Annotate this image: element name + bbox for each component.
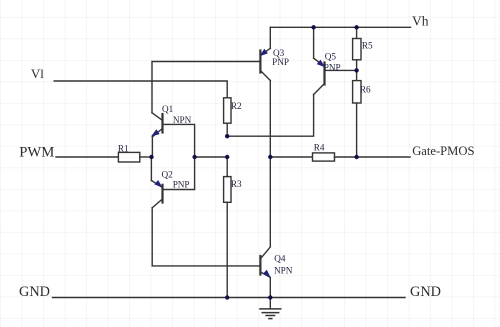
resistor R1 xyxy=(118,152,151,162)
junction output node (Q3/Q4 collectors) xyxy=(268,155,272,159)
svg-text:PWM: PWM xyxy=(19,144,54,160)
resistor R6 xyxy=(353,70,361,157)
svg-text:PNP: PNP xyxy=(173,180,190,190)
arrow Q3 emitter (PNP) xyxy=(258,49,268,59)
svg-text:R6: R6 xyxy=(360,84,371,94)
svg-text:R1: R1 xyxy=(118,144,129,154)
resistor R5 xyxy=(353,27,361,70)
junction R2 bottom / Q5 collector xyxy=(225,134,229,138)
wire Q5 collector to R2/R3 node xyxy=(227,95,313,137)
svg-text:Gate-PMOS: Gate-PMOS xyxy=(412,144,474,158)
transistor Q2 xyxy=(151,157,194,208)
junction R4/R6 Gate-PMOS xyxy=(354,155,358,159)
svg-text:Q5: Q5 xyxy=(325,52,337,62)
svg-text:GND: GND xyxy=(19,284,50,300)
transistor Q3 xyxy=(260,27,270,80)
wire base bus (node B to R2/R3 tap) xyxy=(195,156,228,158)
arrow Q2 emitter (PNP) xyxy=(154,180,164,190)
arrow Q4 emitter (NPN) xyxy=(263,270,273,280)
arrow Q5 emitter (PNP) xyxy=(317,60,327,70)
wire Q2 collector to Q4 base xyxy=(152,208,260,266)
resistor R3 xyxy=(224,157,231,298)
resistor R4 xyxy=(313,153,357,161)
junction GND / Q4 emitter xyxy=(268,295,272,299)
svg-text:R2: R2 xyxy=(231,101,242,111)
wire Vh rail xyxy=(270,26,410,28)
ground xyxy=(260,298,281,319)
transistor Q5 xyxy=(314,27,357,94)
junction Vh / Q5 emitter xyxy=(311,25,315,29)
junction node B (Q1 Q2 bases) xyxy=(192,155,196,159)
svg-text:R4: R4 xyxy=(314,143,325,153)
wire Q3 collector / Q4 collector bus xyxy=(269,81,271,247)
wire Q1 collector to Q3 base xyxy=(152,62,260,113)
wire Vl input to R2 top xyxy=(54,81,227,98)
svg-text:Vh: Vh xyxy=(412,13,429,28)
junction GND / R3 xyxy=(225,295,229,299)
svg-text:R5: R5 xyxy=(362,40,373,50)
junction node A (R1 / Q1 Q2 emitters) xyxy=(149,155,153,159)
svg-text:Q4: Q4 xyxy=(274,254,286,264)
svg-text:PNP: PNP xyxy=(272,57,289,67)
svg-text:PNP: PNP xyxy=(324,63,341,73)
svg-text:NPN: NPN xyxy=(274,265,293,275)
junction R2/R3 string on mid line xyxy=(225,155,229,159)
wire output node to R4 xyxy=(270,156,312,158)
junction Vh / R5 xyxy=(354,25,358,29)
junction R5/R6/Q5 base xyxy=(354,68,358,72)
wire Gate-PMOS output xyxy=(357,156,410,158)
svg-text:R3: R3 xyxy=(231,179,242,189)
arrow Q1 emitter (NPN) xyxy=(149,129,159,139)
svg-text:NPN: NPN xyxy=(173,115,192,125)
resistor R2 xyxy=(224,98,231,136)
wire PWM input to R1 xyxy=(56,156,118,158)
wire GND rail xyxy=(53,297,406,299)
transistor Q1 xyxy=(152,113,195,157)
transistor Q4 xyxy=(260,247,270,298)
svg-text:Vl: Vl xyxy=(31,66,44,81)
svg-text:Q1: Q1 xyxy=(162,104,174,114)
svg-text:Q2: Q2 xyxy=(162,169,174,179)
svg-text:GND: GND xyxy=(410,284,441,300)
